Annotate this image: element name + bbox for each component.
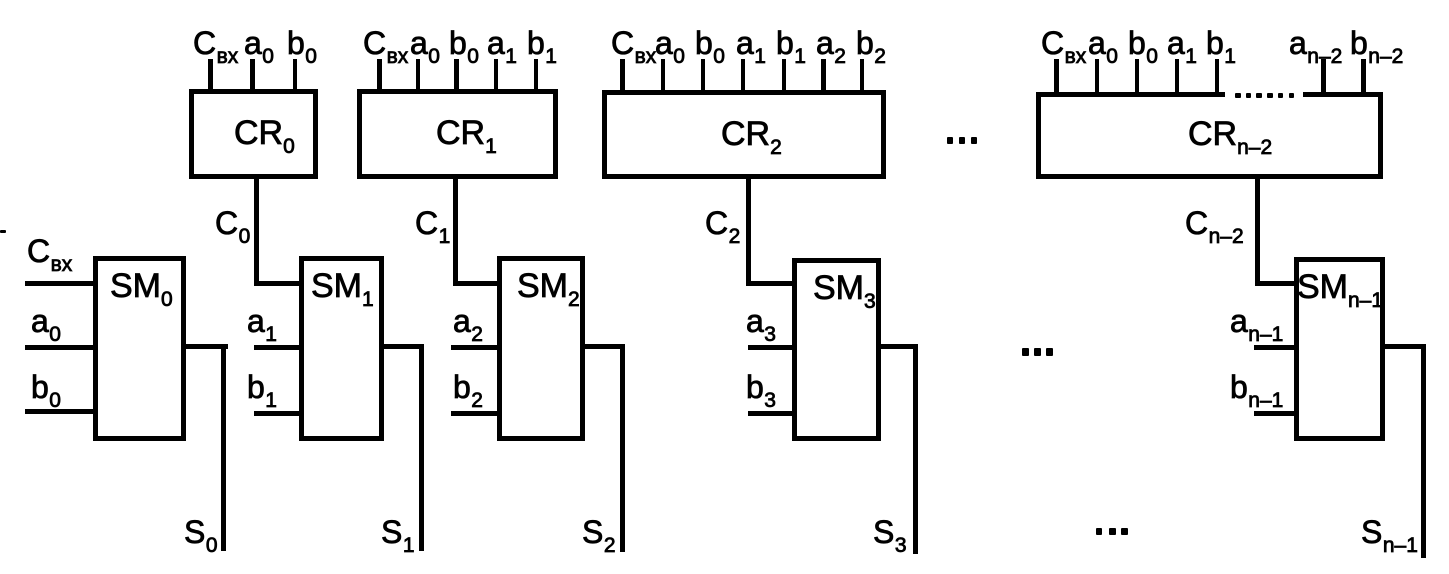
block CR1 bbox=[357, 89, 558, 179]
pin 1 of CR1 bbox=[377, 59, 382, 92]
node S2 label bbox=[582, 516, 616, 548]
label a1 above CR2 bbox=[736, 27, 766, 59]
node C2 label bbox=[705, 207, 740, 239]
label a1 above CR1 bbox=[487, 27, 517, 59]
dotted top border dot 1 of CRn-2 bbox=[1235, 93, 1241, 98]
wire a1 input of SM1 bbox=[254, 345, 299, 350]
wire Sn-1 output horizontal bbox=[1385, 344, 1425, 349]
node S0 label bbox=[184, 516, 218, 548]
label SM0 bbox=[110, 269, 173, 303]
label CR2 bbox=[721, 117, 782, 151]
label SM3 bbox=[813, 271, 876, 305]
pin 1 of CR2 bbox=[620, 59, 625, 93]
wire Cn-2 horizontal into SMn-1 bbox=[1255, 281, 1294, 287]
label b1 above CR1 bbox=[527, 27, 557, 59]
dotted top border dot 5 of CRn-2 bbox=[1278, 93, 1284, 98]
label a0 above CR2 bbox=[655, 27, 685, 59]
wire bn-1 input of SMn-1 bbox=[1254, 411, 1294, 416]
label Cvx above CR0 bbox=[193, 27, 238, 59]
label b0 above CRn-2 bbox=[1128, 27, 1158, 59]
ellipsis dot 2 between SM3 and SMn-1 bbox=[1034, 348, 1041, 356]
label b3 input of SM3 bbox=[746, 371, 776, 403]
ellipsis dot 2 between S3 and Sn-1 bbox=[1109, 528, 1116, 535]
block SM2 bbox=[497, 256, 585, 441]
ellipsis dot 1 between S3 and Sn-1 bbox=[1096, 528, 1103, 535]
label Cvx above CR2 bbox=[611, 27, 656, 59]
block SM0 bbox=[93, 256, 186, 441]
label a2 input of SM2 bbox=[453, 305, 483, 337]
pin 2 of CR0 bbox=[250, 59, 255, 92]
pin 3 of CR0 bbox=[293, 59, 298, 92]
wire C1 horizontal into SM2 bbox=[453, 281, 497, 287]
block SMn-1 bbox=[1294, 257, 1385, 441]
node C0 label bbox=[215, 207, 250, 239]
wire b3 input of SM3 bbox=[748, 411, 792, 416]
label b0 above CR2 bbox=[695, 27, 725, 59]
wire a3 input of SM3 bbox=[748, 345, 792, 350]
pin 5 of CRn-2 bbox=[1215, 59, 1220, 94]
node Cn-2 label bbox=[1185, 207, 1244, 239]
label a2 above CR2 bbox=[816, 27, 846, 59]
label b2 above CR2 bbox=[856, 27, 886, 59]
pin 7 of CR2 bbox=[860, 59, 865, 93]
wire S2 output horizontal bbox=[585, 344, 623, 349]
wire Cvx input of SM0 bbox=[25, 281, 93, 286]
label a0 above CRn-2 bbox=[1088, 27, 1118, 59]
label SM2 bbox=[517, 269, 580, 303]
wire C2 horizontal into SM3 bbox=[746, 281, 792, 287]
label Cvx above CR1 bbox=[363, 27, 408, 59]
wire S3 output horizontal bbox=[881, 344, 918, 349]
top border right segment of CRn-2 bbox=[1303, 92, 1383, 97]
label a1 input of SM1 bbox=[247, 305, 277, 337]
label b0 above CR0 bbox=[287, 27, 317, 59]
pin 6 of CR2 bbox=[821, 59, 826, 93]
node S3 label bbox=[873, 516, 907, 548]
wire b0 input of SM0 bbox=[25, 409, 93, 414]
block CR0 bbox=[189, 89, 318, 179]
pin 3 of CR1 bbox=[454, 59, 459, 92]
wire a0 input of SM0 bbox=[25, 345, 93, 350]
block SM1 bbox=[299, 256, 384, 441]
dotted top border dot 4 of CRn-2 bbox=[1267, 93, 1273, 98]
label SMn-1 bbox=[1297, 270, 1383, 304]
pin 6 of CRn-2 bbox=[1321, 59, 1326, 94]
wire S1 output horizontal bbox=[384, 344, 423, 349]
label Cvx input of SM0 bbox=[27, 235, 72, 267]
label b0 above CR1 bbox=[449, 27, 479, 59]
pin 4 of CR2 bbox=[741, 59, 746, 93]
wire S0 output horizontal bbox=[186, 344, 228, 349]
pin 1 of CR0 bbox=[208, 59, 213, 92]
pin 2 of CRn-2 bbox=[1095, 59, 1100, 94]
wire S2 output vertical bbox=[620, 344, 625, 552]
wire S1 output vertical bbox=[419, 344, 424, 551]
wire b2 input of SM2 bbox=[451, 411, 497, 416]
pin 5 of CR1 bbox=[534, 59, 539, 92]
dotted top border dot 2 of CRn-2 bbox=[1246, 93, 1252, 98]
ellipsis dot 3 between SM3 and SMn-1 bbox=[1046, 348, 1053, 356]
wire C0 vertical from CR0 bbox=[254, 176, 259, 286]
pin 3 of CRn-2 bbox=[1135, 59, 1140, 94]
label bn-2 above CRn-2 bbox=[1350, 27, 1403, 59]
node C1 label bbox=[415, 207, 450, 239]
label an-1 input of SMn-1 bbox=[1230, 305, 1283, 337]
ellipsis dot 1 between CR2 and CRn-2 bbox=[947, 137, 953, 144]
label an-2 above CRn-2 bbox=[1289, 27, 1342, 59]
label CRn-2 bbox=[1188, 117, 1272, 151]
label bn-1 input of SMn-1 bbox=[1230, 371, 1283, 403]
wire Sn-1 output vertical bbox=[1421, 344, 1426, 558]
label CR1 bbox=[436, 116, 497, 150]
label b1 input of SM1 bbox=[247, 371, 277, 403]
pin 1 of CRn-2 bbox=[1054, 59, 1059, 94]
scan mark at left margin bbox=[0, 230, 6, 233]
ellipsis dot 3 between S3 and Sn-1 bbox=[1121, 528, 1128, 535]
wire Cn-2 vertical from CRn-2 bbox=[1255, 176, 1260, 286]
top border left segment of CRn-2 bbox=[1036, 92, 1225, 97]
node Sn-1 label bbox=[1361, 516, 1418, 548]
pin 4 of CRn-2 bbox=[1175, 59, 1180, 94]
wire S3 output vertical bbox=[913, 344, 918, 554]
wire S0 output vertical bbox=[221, 344, 226, 551]
dotted top border dot 6 of CRn-2 bbox=[1289, 93, 1295, 98]
ellipsis dot 1 between SM3 and SMn-1 bbox=[1022, 348, 1029, 356]
label SM1 bbox=[311, 269, 374, 303]
dotted top border dot 3 of CRn-2 bbox=[1256, 93, 1262, 98]
wire C0 horizontal into SM1 bbox=[254, 281, 299, 287]
pin 2 of CR2 bbox=[661, 59, 666, 93]
wire C2 vertical from CR2 bbox=[746, 176, 751, 286]
label a0 input of SM0 bbox=[31, 305, 61, 337]
label a0 above CR1 bbox=[410, 27, 440, 59]
pin 5 of CR2 bbox=[782, 59, 787, 93]
label b0 input of SM0 bbox=[31, 371, 61, 403]
label b1 above CR2 bbox=[776, 27, 806, 59]
block SM3 bbox=[792, 258, 881, 441]
block CR2 bbox=[602, 90, 886, 180]
pin 2 of CR1 bbox=[416, 59, 421, 92]
wire b1 input of SM1 bbox=[254, 411, 299, 416]
ellipsis dot 3 between CR2 and CRn-2 bbox=[971, 137, 977, 144]
label b2 input of SM2 bbox=[453, 371, 483, 403]
label a0 above CR0 bbox=[244, 27, 274, 59]
label CR0 bbox=[234, 116, 295, 150]
label a1 above CRn-2 bbox=[1167, 27, 1197, 59]
label b1 above CRn-2 bbox=[1206, 27, 1236, 59]
label a3 input of SM3 bbox=[746, 305, 776, 337]
pin 3 of CR2 bbox=[701, 59, 706, 93]
wire C1 vertical from CR1 bbox=[453, 176, 458, 286]
wire an-1 input of SMn-1 bbox=[1254, 345, 1294, 350]
ellipsis dot 2 between CR2 and CRn-2 bbox=[959, 137, 965, 144]
wire a2 input of SM2 bbox=[451, 345, 497, 350]
label Cvx above CRn-2 bbox=[1041, 27, 1086, 59]
block CRn-2 bbox=[1036, 92, 1383, 179]
node S1 label bbox=[381, 516, 415, 548]
pin 7 of CRn-2 bbox=[1361, 59, 1366, 94]
pin 4 of CR1 bbox=[494, 59, 499, 92]
